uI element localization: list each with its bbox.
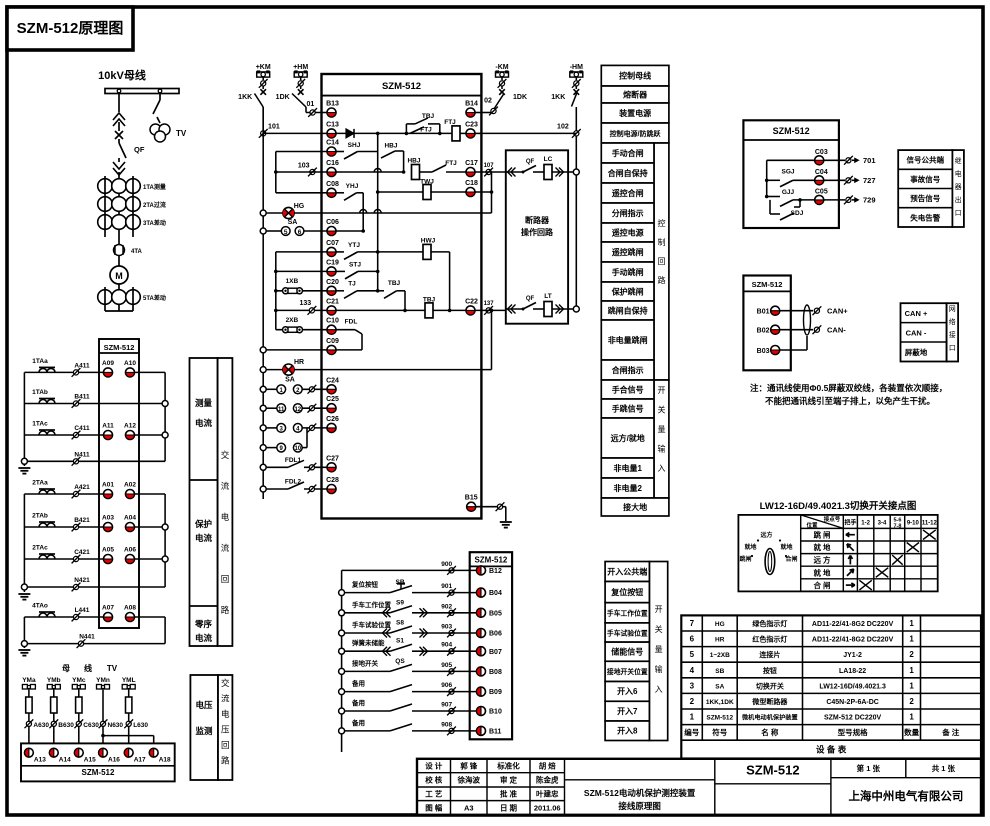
svg-text:02: 02	[484, 98, 492, 105]
svg-text:STJ: STJ	[349, 262, 361, 269]
svg-text:电流: 电流	[195, 633, 213, 643]
svg-text:YMb: YMb	[47, 677, 61, 684]
svg-text:4TAo: 4TAo	[32, 603, 48, 610]
svg-text:SA: SA	[715, 683, 724, 690]
svg-text:手跳信号: 手跳信号	[612, 404, 644, 414]
svg-text:9-10: 9-10	[907, 521, 920, 527]
svg-text:跳闸: 跳闸	[739, 555, 751, 563]
svg-text:B02: B02	[757, 328, 770, 335]
svg-text:熔断器: 熔断器	[623, 90, 648, 100]
svg-text:L441: L441	[75, 607, 90, 614]
svg-text:L630: L630	[133, 722, 148, 729]
svg-text:A05: A05	[102, 547, 114, 554]
svg-text:AD11-22/41-8G2 DC220V: AD11-22/41-8G2 DC220V	[812, 637, 894, 644]
svg-text:1KK: 1KK	[551, 94, 565, 101]
svg-text:SZM-512: SZM-512	[752, 280, 783, 289]
svg-text:3TA差动: 3TA差动	[143, 219, 166, 227]
svg-text:流: 流	[221, 543, 230, 553]
svg-text:C24: C24	[326, 377, 339, 384]
svg-text:S8: S8	[396, 620, 404, 627]
svg-text:SZM-512: SZM-512	[773, 126, 810, 136]
svg-text:JY1-2: JY1-2	[843, 652, 862, 659]
svg-text:线: 线	[84, 663, 92, 673]
svg-text:QF: QF	[134, 145, 145, 154]
svg-text:就 地: 就 地	[813, 567, 831, 577]
svg-text:CAN-: CAN-	[827, 326, 846, 335]
svg-text:1-2: 1-2	[861, 521, 870, 527]
svg-text:郭 锋: 郭 锋	[460, 761, 478, 771]
svg-text:A15: A15	[84, 757, 96, 764]
svg-text:制: 制	[658, 237, 666, 247]
svg-text:-KM: -KM	[495, 64, 508, 71]
svg-text:B14: B14	[465, 101, 478, 108]
svg-text:A411: A411	[74, 362, 90, 369]
svg-text:B12: B12	[489, 568, 502, 575]
svg-text:C22: C22	[465, 298, 478, 305]
svg-text:合 闸: 合 闸	[813, 580, 830, 590]
svg-text:非电量2: 非电量2	[613, 483, 642, 493]
svg-text:A421: A421	[74, 484, 90, 491]
svg-text:1TAb: 1TAb	[32, 389, 48, 396]
svg-text:出: 出	[955, 195, 962, 204]
svg-text:备 注: 备 注	[941, 727, 960, 737]
svg-text:M: M	[115, 271, 123, 281]
svg-text:CAN +: CAN +	[905, 309, 928, 318]
svg-text:C06: C06	[326, 219, 339, 226]
svg-text:+HM: +HM	[293, 64, 308, 71]
svg-text:729: 729	[863, 196, 876, 205]
svg-text:输: 输	[655, 664, 663, 674]
svg-text:就 地: 就 地	[813, 542, 831, 552]
svg-text:A03: A03	[102, 515, 114, 522]
svg-text:C05: C05	[815, 188, 828, 195]
svg-text:弹簧未储能: 弹簧未储能	[352, 638, 385, 647]
svg-text:C28: C28	[326, 477, 339, 484]
svg-text:4: 4	[690, 666, 695, 675]
svg-text:1: 1	[909, 681, 914, 690]
svg-text:跳闸自保持: 跳闸自保持	[608, 306, 648, 316]
svg-text:N630: N630	[108, 722, 124, 729]
svg-text:B411: B411	[74, 394, 90, 401]
svg-text:装置电源: 装置电源	[618, 108, 651, 118]
svg-text:SZM-512 DC220V: SZM-512 DC220V	[824, 715, 882, 722]
svg-text:断路器: 断路器	[525, 215, 550, 225]
svg-text:接线原理图: 接线原理图	[618, 801, 661, 811]
svg-text:设 计: 设 计	[425, 761, 443, 771]
svg-text:分闸指示: 分闸指示	[612, 208, 644, 218]
svg-text:904: 904	[441, 642, 452, 649]
svg-text:727: 727	[863, 176, 876, 185]
svg-text:1XB: 1XB	[286, 278, 299, 285]
svg-text:标准化: 标准化	[496, 761, 520, 771]
svg-text:1: 1	[909, 713, 914, 722]
svg-text:C03: C03	[815, 149, 828, 156]
svg-text:902: 902	[441, 603, 452, 610]
svg-text:SZM-512电动机保护测控装置: SZM-512电动机保护测控装置	[584, 788, 696, 798]
svg-text:B15: B15	[465, 495, 478, 502]
svg-text:量: 量	[658, 425, 666, 434]
svg-text:继: 继	[955, 156, 962, 165]
svg-text:SA: SA	[288, 219, 298, 226]
svg-text:2TAc: 2TAc	[32, 545, 48, 552]
svg-text:1TAc: 1TAc	[32, 421, 48, 428]
svg-text:1: 1	[909, 635, 914, 644]
svg-text:开入6: 开入6	[617, 687, 638, 696]
svg-text:900: 900	[441, 561, 452, 568]
svg-text:回: 回	[221, 574, 230, 584]
svg-text:HR: HR	[294, 359, 304, 366]
svg-text:电压: 电压	[195, 700, 213, 710]
svg-text:A12: A12	[124, 423, 136, 430]
svg-text:操作回路: 操作回路	[521, 227, 554, 237]
svg-text:B421: B421	[74, 517, 90, 524]
svg-text:备用: 备用	[351, 718, 365, 727]
svg-text:复位按钮: 复位按钮	[351, 580, 379, 589]
svg-text:注：通讯线使用Φ0.5屏蔽双绞线，各装置依次顺接，: 注：通讯线使用Φ0.5屏蔽双绞线，各装置依次顺接，	[750, 383, 947, 393]
svg-text:A630: A630	[33, 722, 49, 729]
svg-text:开入7: 开入7	[617, 707, 638, 716]
svg-text:QF: QF	[526, 296, 535, 302]
svg-text:B01: B01	[757, 309, 770, 316]
svg-text:TBJ: TBJ	[388, 280, 401, 287]
svg-text:不能把通讯线引至端子排上，以免产生干扰。: 不能把通讯线引至端子排上，以免产生干扰。	[765, 396, 935, 406]
svg-text:B05: B05	[489, 610, 502, 617]
svg-text:B03: B03	[757, 348, 770, 355]
svg-text:6: 6	[298, 229, 302, 236]
svg-text:合闸指示: 合闸指示	[611, 365, 644, 375]
svg-text:C421: C421	[74, 549, 90, 556]
svg-text:SZM-512: SZM-512	[82, 768, 115, 777]
svg-text:零序: 零序	[194, 619, 213, 629]
svg-text:5TA差动: 5TA差动	[143, 294, 166, 302]
svg-text:控制母线: 控制母线	[619, 71, 651, 81]
svg-text:遥控电源: 遥控电源	[612, 228, 644, 238]
svg-text:网: 网	[949, 305, 956, 313]
svg-text:LW12-16D/49.4021.3切换开关接点图: LW12-16D/49.4021.3切换开关接点图	[760, 500, 917, 512]
svg-text:C18: C18	[465, 180, 478, 187]
svg-text:AD11-22/41-8G2 DC220V: AD11-22/41-8G2 DC220V	[812, 621, 894, 628]
svg-text:GJJ: GJJ	[782, 189, 795, 196]
svg-text:C07: C07	[326, 240, 339, 247]
svg-text:A16: A16	[108, 757, 120, 764]
svg-text:1~2XB: 1~2XB	[710, 652, 730, 659]
svg-text:YMc: YMc	[72, 677, 86, 684]
svg-text:HR: HR	[715, 637, 725, 644]
svg-text:C10: C10	[326, 318, 339, 325]
svg-text:预告信号: 预告信号	[910, 193, 940, 203]
svg-text:胡 焙: 胡 焙	[539, 761, 557, 771]
svg-text:测量: 测量	[195, 398, 213, 408]
svg-text:B13: B13	[326, 101, 339, 108]
svg-text:编号: 编号	[684, 727, 699, 737]
svg-text:按钮: 按钮	[763, 666, 777, 675]
svg-text:事故信号: 事故信号	[910, 174, 940, 184]
svg-text:校 核: 校 核	[425, 775, 443, 785]
svg-text:01: 01	[307, 101, 315, 108]
svg-text:7-8: 7-8	[893, 524, 901, 530]
svg-text:TV: TV	[107, 664, 118, 673]
svg-text:路: 路	[658, 275, 666, 285]
svg-text:2: 2	[909, 650, 914, 659]
svg-text:入: 入	[655, 685, 663, 694]
svg-text:络: 络	[949, 317, 956, 326]
svg-text:开入8: 开入8	[617, 727, 638, 736]
svg-text:监测: 监测	[195, 726, 213, 736]
svg-text:6: 6	[690, 635, 695, 644]
svg-text:徐海波: 徐海波	[457, 775, 481, 785]
svg-text:日 期: 日 期	[500, 803, 518, 813]
svg-text:A09: A09	[102, 360, 114, 367]
svg-text:A3: A3	[464, 804, 474, 813]
svg-text:合闸自保持: 合闸自保持	[607, 168, 648, 178]
svg-text:共 1 张: 共 1 张	[932, 763, 956, 773]
svg-text:A13: A13	[34, 757, 46, 764]
svg-text:保护: 保护	[194, 519, 213, 529]
svg-text:HBJ: HBJ	[407, 158, 420, 165]
svg-text:A06: A06	[124, 547, 136, 554]
svg-text:口: 口	[955, 209, 962, 217]
svg-text:C630: C630	[83, 722, 99, 729]
svg-text:关: 关	[658, 405, 666, 415]
svg-text:位置: 位置	[806, 521, 818, 529]
svg-text:2TAa: 2TAa	[32, 480, 48, 487]
svg-text:133: 133	[299, 300, 311, 307]
svg-text:1KK: 1KK	[238, 94, 252, 101]
svg-text:B630: B630	[58, 722, 74, 729]
svg-text:SZM-512: SZM-512	[382, 81, 421, 92]
svg-text:遥控合闸: 遥控合闸	[612, 188, 644, 198]
svg-text:回: 回	[221, 740, 230, 750]
svg-text:失电告警: 失电告警	[910, 212, 940, 222]
svg-text:陈金虎: 陈金虎	[536, 775, 559, 785]
svg-text:手车试验位置: 手车试验位置	[352, 620, 392, 629]
svg-text:接大地: 接大地	[623, 502, 647, 512]
svg-text:YTJ: YTJ	[348, 242, 360, 249]
svg-text:微机电动机保护装置: 微机电动机保护装置	[741, 714, 798, 722]
svg-text:3-4: 3-4	[878, 521, 887, 527]
svg-text:手车工作位置: 手车工作位置	[352, 600, 392, 609]
svg-text:C14: C14	[326, 140, 339, 147]
svg-text:手车试验位置: 手车试验位置	[607, 628, 648, 637]
svg-text:开: 开	[655, 605, 663, 614]
svg-text:C13: C13	[326, 121, 339, 128]
svg-text:906: 906	[441, 682, 452, 689]
svg-text:907: 907	[441, 702, 452, 709]
svg-text:SA: SA	[285, 377, 295, 384]
svg-text:电: 电	[221, 512, 230, 522]
svg-text:SB: SB	[715, 668, 724, 675]
svg-text:TV: TV	[176, 129, 187, 138]
svg-text:N411: N411	[74, 451, 90, 458]
svg-text:TBJ: TBJ	[423, 297, 436, 304]
svg-text:QS: QS	[395, 658, 405, 665]
svg-text:B10: B10	[489, 709, 502, 716]
svg-text:TWJ: TWJ	[420, 179, 434, 186]
svg-text:C08: C08	[326, 181, 339, 188]
svg-text:C21: C21	[326, 298, 339, 305]
svg-text:LW12-16D/49.4021.3: LW12-16D/49.4021.3	[819, 683, 886, 690]
svg-text:10: 10	[294, 446, 301, 452]
svg-text:B08: B08	[489, 669, 502, 676]
svg-text:C04: C04	[815, 169, 828, 176]
svg-text:5: 5	[690, 650, 695, 659]
svg-text:2011.06: 2011.06	[534, 804, 561, 813]
svg-text:口: 口	[949, 344, 956, 352]
svg-text:连接片: 连接片	[759, 650, 780, 659]
svg-text:上海中州电气有限公司: 上海中州电气有限公司	[848, 789, 963, 803]
svg-text:电流: 电流	[195, 533, 213, 543]
svg-text:901: 901	[441, 583, 452, 590]
svg-text:2: 2	[690, 697, 695, 706]
svg-text:C23: C23	[465, 121, 478, 128]
svg-text:交: 交	[221, 450, 230, 460]
svg-text:N441: N441	[79, 634, 95, 641]
svg-text:非电量1: 非电量1	[613, 463, 642, 473]
svg-text:C411: C411	[74, 425, 90, 432]
svg-text:TJ: TJ	[348, 281, 356, 288]
svg-text:复位按钮: 复位按钮	[610, 587, 643, 597]
svg-text:C45N-2P-6A-DC: C45N-2P-6A-DC	[826, 699, 879, 706]
svg-text:1: 1	[909, 666, 914, 675]
svg-text:A04: A04	[124, 515, 136, 522]
svg-text:TBJ: TBJ	[422, 113, 435, 120]
svg-text:名 称: 名 称	[761, 727, 779, 737]
svg-text:1: 1	[909, 619, 914, 628]
svg-text:接点号: 接点号	[824, 515, 841, 523]
svg-text:B11: B11	[489, 729, 502, 736]
svg-text:路: 路	[221, 756, 230, 766]
svg-text:FTJ: FTJ	[420, 127, 432, 134]
svg-text:S9: S9	[396, 599, 404, 606]
svg-text:FTJ: FTJ	[445, 160, 457, 167]
svg-text:C20: C20	[326, 279, 339, 286]
svg-text:就地: 就地	[780, 543, 792, 551]
svg-text:电: 电	[955, 169, 962, 178]
svg-text:LC: LC	[544, 156, 553, 163]
svg-text:SZM-512: SZM-512	[746, 763, 799, 778]
svg-text:+KM: +KM	[256, 64, 271, 71]
svg-text:回: 回	[658, 257, 666, 266]
svg-text:绿色指示灯: 绿色指示灯	[752, 619, 787, 628]
svg-text:10kV母线: 10kV母线	[98, 68, 146, 82]
svg-text:1KK,1DK: 1KK,1DK	[706, 699, 734, 706]
svg-text:701: 701	[863, 156, 876, 165]
svg-text:11-12: 11-12	[922, 521, 938, 527]
svg-text:手合信号: 手合信号	[612, 385, 644, 395]
svg-text:手车工作位置: 手车工作位置	[607, 609, 648, 618]
svg-text:QF: QF	[526, 159, 535, 165]
svg-text:SZM-512: SZM-512	[474, 556, 507, 565]
svg-text:FDL: FDL	[345, 319, 358, 326]
svg-text:开: 开	[658, 386, 666, 395]
svg-text:电流: 电流	[195, 418, 213, 428]
svg-text:2XB: 2XB	[286, 317, 299, 324]
svg-text:11: 11	[278, 407, 285, 413]
svg-text:切换开关: 切换开关	[756, 681, 784, 690]
svg-text:1TA测量: 1TA测量	[143, 183, 166, 191]
svg-text:103: 103	[298, 163, 310, 170]
svg-text:2TA过流: 2TA过流	[143, 201, 166, 209]
svg-text:HG: HG	[715, 621, 725, 628]
svg-text:A07: A07	[102, 605, 114, 612]
svg-text:A01: A01	[102, 482, 114, 489]
svg-text:C16: C16	[326, 160, 339, 167]
svg-text:YML: YML	[122, 677, 136, 684]
svg-text:3: 3	[690, 681, 695, 690]
svg-text:保护跳闸: 保护跳闸	[611, 287, 644, 297]
svg-text:C27: C27	[326, 455, 339, 462]
svg-text:905: 905	[441, 662, 452, 669]
svg-text:设 备 表: 设 备 表	[816, 744, 847, 754]
svg-text:908: 908	[441, 721, 452, 728]
svg-text:图 幅: 图 幅	[425, 803, 443, 813]
svg-text:N421: N421	[74, 577, 90, 584]
svg-text:储能信号: 储能信号	[610, 647, 643, 657]
svg-text:接: 接	[949, 330, 956, 339]
svg-text:备用: 备用	[351, 679, 365, 688]
svg-text:101: 101	[268, 124, 280, 131]
svg-text:流: 流	[221, 694, 230, 704]
svg-text:流: 流	[221, 481, 230, 491]
svg-text:C17: C17	[465, 160, 478, 167]
svg-text:LA18-22: LA18-22	[839, 668, 866, 675]
svg-text:102: 102	[557, 124, 569, 131]
svg-text:B04: B04	[489, 590, 502, 597]
svg-text:把手: 把手	[844, 519, 856, 527]
svg-text:1TAa: 1TAa	[32, 358, 48, 365]
svg-text:SZM-512: SZM-512	[104, 343, 135, 352]
svg-text:型号规格: 型号规格	[838, 727, 868, 737]
svg-text:A18: A18	[159, 757, 171, 764]
svg-text:接地开关位置: 接地开关位置	[607, 667, 648, 676]
svg-text:C26: C26	[326, 416, 339, 423]
svg-text:工 艺: 工 艺	[425, 789, 443, 799]
svg-text:符号: 符号	[712, 727, 727, 737]
svg-text:C19: C19	[326, 259, 339, 266]
svg-text:A02: A02	[124, 482, 136, 489]
svg-text:路: 路	[221, 605, 230, 615]
svg-text:SZM-512原理图: SZM-512原理图	[17, 20, 124, 37]
svg-text:-HM: -HM	[570, 64, 583, 71]
svg-text:输: 输	[658, 444, 666, 454]
svg-text:HG: HG	[294, 203, 305, 210]
svg-text:LT: LT	[544, 293, 551, 300]
svg-text:压: 压	[221, 725, 230, 735]
svg-text:数量: 数量	[904, 727, 919, 737]
svg-text:跳 闸: 跳 闸	[813, 530, 830, 540]
svg-text:SZM-512: SZM-512	[706, 715, 733, 722]
svg-text:1: 1	[690, 713, 695, 722]
svg-text:电: 电	[221, 709, 230, 719]
svg-text:SGJ: SGJ	[781, 169, 794, 176]
svg-text:A11: A11	[102, 423, 114, 430]
svg-text:备用: 备用	[351, 698, 365, 707]
svg-text:A08: A08	[124, 605, 136, 612]
svg-text:SHJ: SHJ	[348, 142, 361, 149]
svg-text:1DK: 1DK	[513, 94, 527, 101]
svg-text:A14: A14	[59, 757, 71, 764]
svg-text:A17: A17	[134, 757, 146, 764]
svg-text:开入公共端: 开入公共端	[607, 566, 647, 576]
svg-text:12: 12	[294, 407, 301, 413]
svg-text:CAN -: CAN -	[906, 328, 927, 337]
svg-text:HBJ: HBJ	[384, 143, 397, 150]
svg-text:控: 控	[658, 218, 666, 228]
svg-text:微型断路器: 微型断路器	[751, 697, 788, 706]
svg-text:YMa: YMa	[22, 677, 36, 684]
svg-text:C25: C25	[326, 396, 339, 403]
svg-text:B09: B09	[489, 689, 502, 696]
